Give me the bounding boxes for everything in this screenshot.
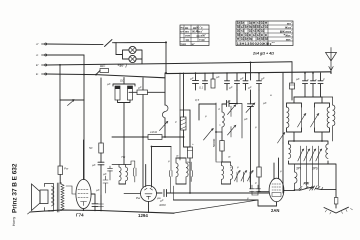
svg-text:μ: μ [314,78,317,82]
rail x84 [83,55,85,100]
tiny value labels [64,64,325,208]
right coil L6 [333,97,335,141]
svg-text:μ: μ [174,120,177,124]
svg-text:50000: 50000 [212,138,216,147]
wire L1 top [47,43,103,46]
capacitor C17 [303,73,308,97]
rail x60 [59,65,61,100]
left rail x283 [282,73,284,143]
rail x143 [142,78,144,90]
svg-text:a: a [270,93,272,97]
svg-text:μw: μw [156,196,162,200]
resistor R8 [258,90,260,167]
svg-text:4: 4 [218,107,220,111]
grid cap wire [91,194,95,204]
svg-text:02: 02 [265,25,269,29]
svg-text:3Pt: 3Pt [296,167,301,171]
capacitor C10 [193,73,199,90]
svg-text:Aˇ: Aˇ [35,42,40,46]
svg-text:μF: μF [243,117,248,121]
wire rail x242 [237,104,242,139]
trimmer box FT1 [220,141,224,152]
wire [221,151,223,162]
trimmer arrow TC1 [160,121,168,130]
capacitor C20 [98,162,104,210]
title text vertical [12,163,19,226]
svg-text:50: 50 [89,146,93,150]
drops to switch [301,164,319,187]
svg-text:μF: μF [189,77,194,81]
tank1 frame [287,97,302,141]
table T1 [180,25,209,46]
svg-text:0,5: 0,5 [195,98,200,102]
resistor R2 boxes pair [113,78,135,87]
rail x190 electrolytic C21 [189,110,191,147]
svg-text:0,1: 0,1 [199,86,204,90]
svg-text:Prinz 37 B E 632: Prinz 37 B E 632 [12,163,19,213]
capacitor C24 [92,204,98,211]
wire V2 grid leads [146,147,171,188]
TR1 primary coil [61,184,64,210]
tube V2 mixer [141,186,157,202]
wire [221,132,223,141]
capacitor C28 T2 left [170,147,173,194]
resistor R7 hatched [181,117,187,130]
top link [294,96,322,98]
lower coil L8 [326,144,328,158]
svg-text:μw: μw [185,160,191,164]
wire L3 [47,62,292,65]
svg-text:μF: μF [228,86,233,90]
svg-text:μF: μF [295,77,300,81]
svg-text:μF: μF [215,75,220,79]
table T1 cell text [180,25,207,46]
capacitor C25 [99,195,104,207]
oscillator section [180,73,255,193]
lamp La1 [129,46,136,53]
wire L2 [47,54,84,56]
left AF section [58,69,184,211]
bottom bus left [30,210,174,213]
svg-text:μF: μF [262,101,267,105]
svg-text:μF: μF [102,172,107,176]
junction dots on bus [195,72,332,74]
svg-text:μ: μ [279,169,282,173]
svg-text:2x4 gΩ + 4Ω: 2x4 gΩ + 4Ω [252,52,274,56]
svg-text:12kΩ: 12kΩ [150,130,158,134]
trimmer arrow TC3 [246,103,255,113]
svg-text:≈: ≈ [219,123,221,127]
resistor R6 [148,135,162,140]
svg-text:μF: μF [95,188,100,192]
lamp loop [116,42,142,63]
loudspeaker LS [32,184,41,211]
resistor R3 horizontal [129,91,137,93]
ground [328,164,336,198]
capacitor C26 [157,190,270,197]
small caps left of V3 [250,185,255,195]
tank2 varcap [311,107,319,128]
wire L4 left bus [47,74,165,78]
corner drop x292 from L3 [291,62,293,80]
tap wire [199,104,216,120]
trimmer arrow TC2 [204,129,214,141]
wire osc rail x216 [215,103,217,160]
drop x250 from L3 [250,62,252,80]
svg-text:μF: μF [91,163,96,167]
switch S1 [105,40,115,47]
svg-text:1294: 1294 [138,213,148,218]
lower coil L7 [289,144,291,158]
component row under main bus [193,72,332,100]
capacitor C23 [248,104,254,189]
switch SW [284,190,295,192]
IF transformer T1 [112,161,136,184]
rail x101 [100,78,102,143]
svg-text:μ: μ [254,125,257,129]
resistor R4 [58,166,63,175]
capacitor C22 [222,101,237,107]
svg-text:μ: μ [236,165,239,169]
coil L9 [295,164,298,190]
trimmer arrow TC8 [228,105,236,117]
IF transformer T2 [170,147,193,194]
rail x60 lower [59,100,61,166]
capacitor C14 [243,73,248,90]
oscillator coil L3 [216,104,224,132]
svg-text:×ия: ×ия [180,42,186,46]
svg-text:μF: μF [137,86,142,90]
svg-text:Tr: Tr [228,155,232,159]
rail x250 lower [250,90,252,104]
capacitor C15 [257,73,262,90]
tank1 coil L4 [287,107,289,128]
tube V3 [269,178,284,202]
IF transformer T3 [216,160,233,184]
fuse box F1 [100,69,109,73]
rail x180 to T2 [180,73,190,110]
rail x165 with coil L2 [164,73,166,105]
svg-text:μ: μ [306,78,309,82]
node x60 on L3 [59,64,61,66]
svg-text:ο×: ο× [180,29,184,33]
small caps left of V2 [108,166,113,180]
svg-text:Eˇ: Eˇ [36,63,40,67]
svg-text:≈10 ˇּإ: ≈10 ˇּإ [118,64,128,68]
svg-text:Tr: Tr [176,154,180,158]
tuning block [278,73,335,193]
svg-text:μ: μ [167,159,170,163]
svg-text:Pw: Pw [64,167,69,171]
bottom section [28,90,353,218]
node x151 [151,146,153,148]
svg-text:μ: μ [204,114,207,118]
speaker frame + field coil [45,184,54,212]
svg-text:RW: RW [304,182,310,186]
potentiometer link P1 [60,99,84,101]
table T2 [236,21,293,46]
capacitor C18 [311,73,316,97]
wire y137 [112,136,148,138]
svg-text:϶ː▬ˇ: ϶ː▬ˇ [199,38,207,42]
svg-text:+: + [192,142,194,146]
rail x237 lower [236,90,238,104]
svg-text:Tkt: Tkt [121,155,125,159]
svg-text:϶2: ϶2 [253,33,257,37]
svg-text:Γ74: Γ74 [76,213,84,218]
input terminals [35,42,47,76]
antenna A1 [326,48,337,73]
capacitor C11 [203,73,208,90]
electrolytic C16 [291,80,293,100]
svg-text:3Pb: 3Pb [312,167,318,171]
capacitor C19 [318,73,323,97]
svg-text:μF: μF [106,82,111,86]
svg-text:μ: μ [246,196,249,200]
tank1 varcap [298,107,306,128]
tube V1 output [76,179,91,208]
svg-text:Horny: Horny [12,217,16,226]
svg-text:μ: μ [254,181,257,185]
svg-text:Pw: Pw [136,196,141,200]
svg-text:2AN: 2AN [271,208,279,213]
svg-text:жиːˇ: жиːˇ [285,37,293,41]
tank2 frame [315,97,330,141]
band lever arrow [278,133,285,144]
capacitor C27 T2 right [190,162,193,182]
svg-text:μ: μ [229,165,232,169]
svg-text:4000: 4000 [159,203,166,207]
rail x183.5 [183,73,185,117]
lower block frame [289,141,329,164]
left rail to bottom [282,143,284,193]
tank2 coil L5 [327,107,329,128]
svg-text:ΩΩ: ΩΩ [120,79,125,83]
svg-text:13H1350020Ж※϶ˇˇ: 13H1350020Ж※϶ˇˇ [237,41,276,46]
capacitor C13 [235,73,240,90]
trimmer arrow TC9 [228,125,236,137]
lamp La2 [129,55,136,62]
svg-text:μF: μF [239,77,244,81]
wire L1 cont [115,41,167,43]
capacitor C12 [225,73,230,90]
table T2 cell fills [237,20,269,41]
T3 trimmer arrows [237,172,250,182]
main bus right [166,72,331,74]
node coil tap [215,131,217,133]
wire drop x166 [165,42,167,73]
resistor R5 [99,143,104,153]
trimmers TC4-7 [301,146,319,164]
svg-text:μF: μF [260,77,265,81]
long wires bottom [174,199,259,201]
svg-text:Eː: Eː [36,72,39,76]
svg-text:μF: μF [226,100,231,104]
wire bus end tick [28,212,31,214]
rail x84 lower [83,100,85,180]
resistor R10 [212,73,214,79]
svg-text:Aː: Aː [35,53,39,57]
svg-text:μF: μF [247,86,252,90]
svg-text:F: F [323,78,325,82]
output transformer TR1 core [57,183,59,212]
svg-text:▬Ω: ▬Ω [100,64,106,68]
